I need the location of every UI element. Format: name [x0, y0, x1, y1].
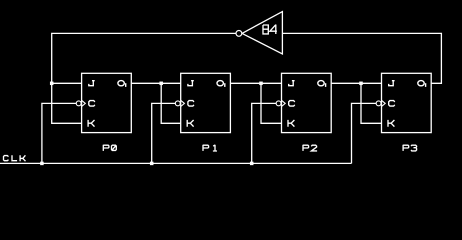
wire: Q of P3 up and left to B4 input	[282, 33, 441, 83]
flip-flop P3 body	[382, 73, 432, 132]
node: junction at J input of P0	[50, 82, 54, 86]
node: junction at J input of P3	[359, 82, 363, 86]
pin label J of P3	[389, 81, 395, 86]
label P0	[103, 145, 109, 151]
wire: CLK riser to C of P2	[252, 103, 277, 163]
pin label Q of P0	[118, 81, 124, 86]
label B4	[263, 25, 268, 34]
pin label K of P3	[388, 120, 394, 127]
node: junction on CLK bus at P2 riser	[250, 162, 254, 166]
wire: feedback net from B4 output down to J0/K0 tie	[52, 33, 236, 123]
flip-flop P1 body	[181, 73, 231, 132]
flip-flop P0 body	[82, 73, 132, 132]
wire: CLK riser to C of P0	[42, 103, 77, 163]
flip-flop P2 body	[282, 73, 332, 132]
clock chevron of P3	[382, 100, 386, 106]
clock bubble at C of P2	[276, 101, 281, 106]
clock chevron of P1	[181, 100, 185, 106]
pin label Q of P3	[418, 81, 424, 86]
wire: CLK bus	[0, 162, 352, 164]
wire: Q output of P1 to J of P2	[230, 82, 281, 84]
inverter B4 triangle	[242, 12, 282, 54]
pin label Q of P1	[217, 81, 223, 86]
pin label Q of P2	[318, 81, 324, 86]
label P3	[403, 145, 409, 151]
pin label C of P3	[389, 101, 395, 107]
clock bubble at C of P1	[175, 101, 180, 106]
node: junction on CLK bus at P1 riser	[150, 162, 154, 166]
pin label C of P0	[89, 101, 95, 107]
node: junction on CLK bus at P0 riser	[40, 162, 44, 166]
wire: J/K tie of P1	[161, 83, 181, 123]
wire: Q output of P0 to J of P1	[131, 82, 180, 84]
wire: J/K tie of P2	[261, 83, 282, 123]
label P1	[203, 145, 209, 151]
wire: J input stub of P0	[52, 82, 82, 84]
node: junction at J input of P1	[159, 82, 163, 86]
pin label K of P0	[88, 120, 94, 127]
pin label C of P1	[188, 101, 194, 107]
pin label J of P1	[188, 81, 194, 86]
clock bubble at C of P0	[76, 101, 81, 106]
node: junction at J input of P2	[259, 82, 263, 86]
pin label J of P0	[89, 81, 95, 86]
inverter B4 output bubble	[236, 31, 242, 37]
pin label K of P2	[288, 120, 294, 127]
clock chevron of P0	[82, 100, 86, 106]
pin label K of P1	[187, 120, 193, 127]
wire: Q output of P2 to J of P3	[331, 82, 381, 84]
wire: CLK bus end riser up to C of P3	[352, 103, 377, 163]
wire: J/K tie of P3	[361, 83, 382, 123]
pin label C of P2	[289, 101, 295, 107]
net label CLK	[4, 156, 9, 161]
clock bubble at C of P3	[376, 101, 381, 106]
label P2	[303, 145, 309, 151]
pin label J of P2	[289, 81, 295, 86]
wire: CLK riser to C of P1	[152, 103, 176, 163]
clock chevron of P2	[282, 100, 286, 106]
